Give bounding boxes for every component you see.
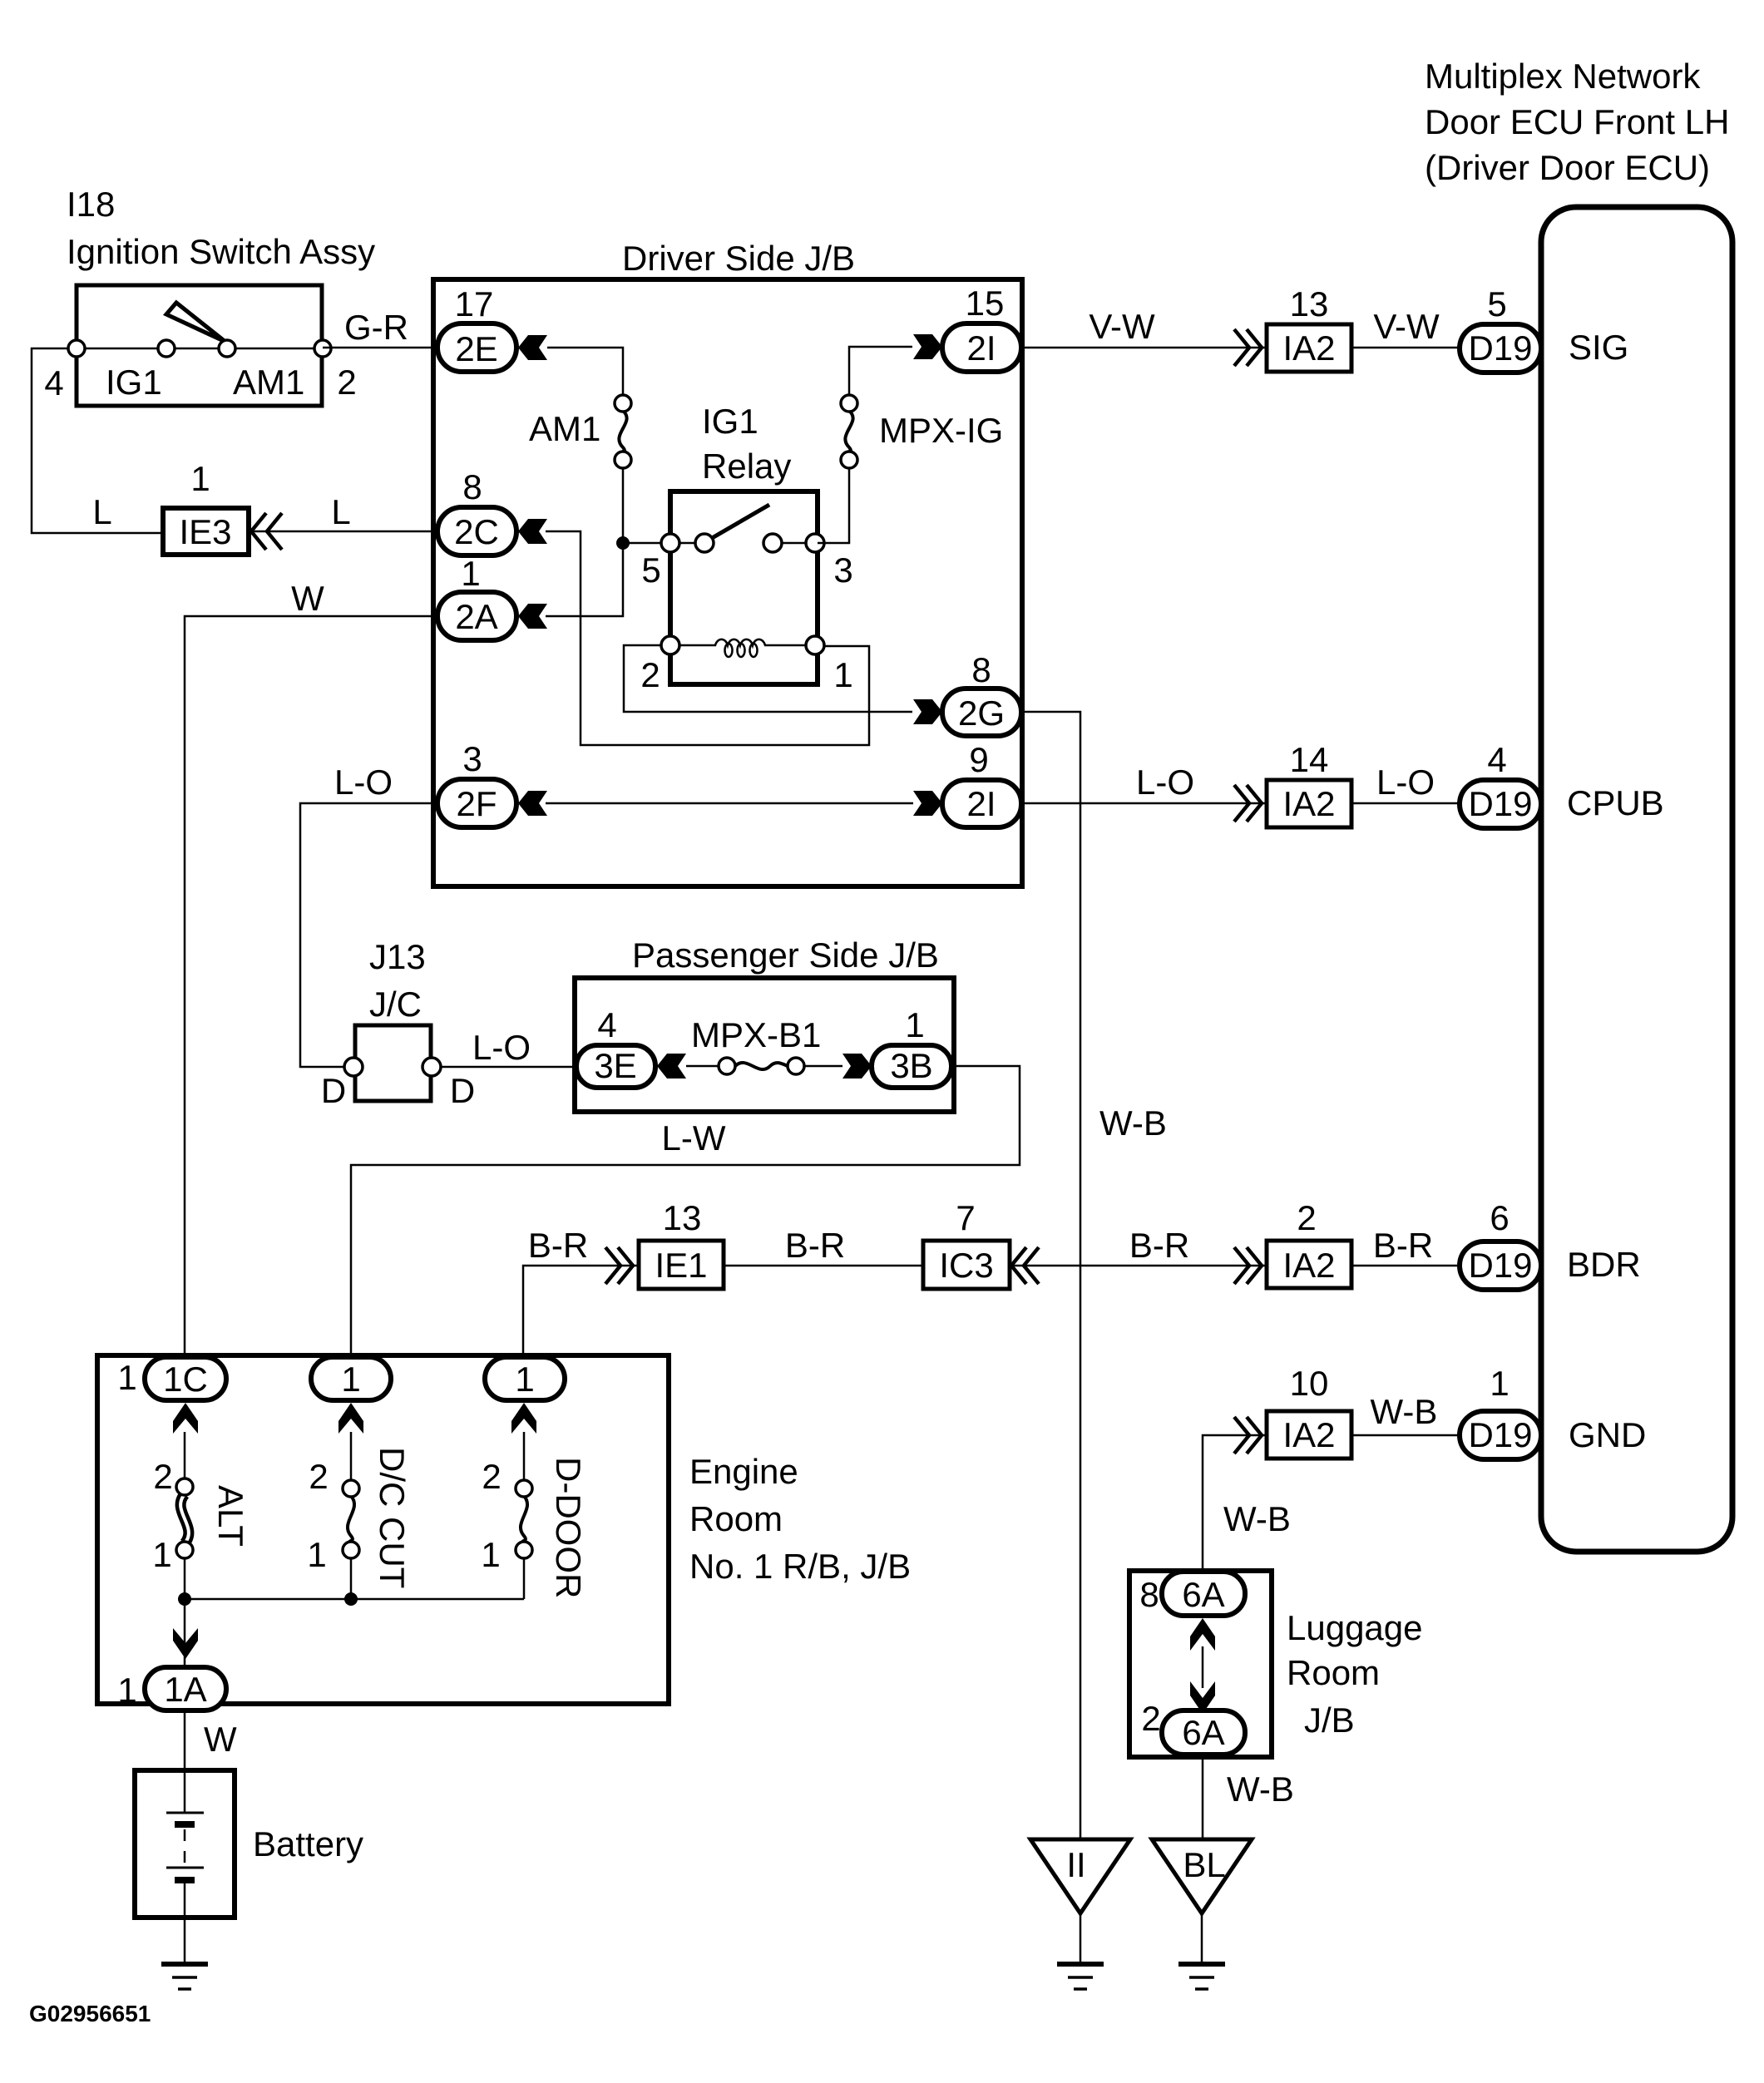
- fuse D-DOOR: [521, 1496, 527, 1542]
- wire: L-W from 3B to engine room D/C CUT connector: [351, 1066, 1020, 1359]
- wire: W from 2A to engine room 1C: [185, 616, 433, 1359]
- wire: MPX-IG fuse top to 2I: [849, 347, 912, 395]
- svg-text:1: 1: [341, 1360, 360, 1399]
- svg-text:MPX-B1: MPX-B1: [691, 1015, 821, 1054]
- arrow into 2C: [518, 519, 547, 544]
- svg-text:2: 2: [640, 655, 660, 694]
- wire: engine room bus: [185, 1598, 524, 1601]
- wire between luggage arrows: [1202, 1646, 1204, 1688]
- arrow into 3E: [657, 1054, 686, 1079]
- connector oval 2F: [437, 779, 516, 827]
- svg-text:D19: D19: [1468, 784, 1532, 823]
- chevron pair before IE1: [605, 1247, 620, 1284]
- svg-text:L: L: [331, 492, 350, 531]
- wire: fuse to arrows inside passenger J/B: [686, 1065, 719, 1068]
- ECU Driver Door ECU body: [1541, 207, 1732, 1552]
- svg-text:B-R: B-R: [1373, 1226, 1433, 1265]
- svg-text:Relay: Relay: [702, 447, 791, 486]
- svg-text:4: 4: [1487, 740, 1506, 779]
- wire: L from IE3 to 2C: [249, 531, 436, 533]
- svg-text:8: 8: [1139, 1575, 1159, 1614]
- arrow into 2I (15): [913, 334, 942, 359]
- svg-text:2: 2: [337, 363, 356, 402]
- junction box: Passenger Side J/B: [575, 978, 954, 1112]
- svg-text:SIG: SIG: [1569, 328, 1628, 367]
- svg-text:B-R: B-R: [785, 1226, 845, 1265]
- svg-text:V-W: V-W: [1373, 307, 1440, 346]
- wire: D/C CUT to bus: [350, 1558, 353, 1599]
- svg-text:3: 3: [833, 550, 852, 590]
- svg-text:3E: 3E: [594, 1046, 636, 1085]
- svg-text:Ignition Switch Assy: Ignition Switch Assy: [67, 232, 375, 271]
- wire: IC3 to IA2(2) B-R: [1010, 1265, 1267, 1267]
- fuse D/C CUT: [348, 1496, 354, 1542]
- junction box: Driver Side J/B: [433, 279, 1022, 886]
- chevron pair before IA2(10): [1234, 1417, 1249, 1454]
- wire: L-O from 2F out to J13: [300, 803, 433, 1067]
- svg-text:W: W: [291, 579, 324, 618]
- ignition switch box: [77, 285, 322, 406]
- svg-text:Engine: Engine: [689, 1452, 798, 1491]
- svg-text:1: 1: [117, 1358, 136, 1397]
- svg-text:B-R: B-R: [1129, 1226, 1189, 1265]
- svg-text:2I: 2I: [966, 784, 996, 823]
- wire: IE1 to IC3 B-R: [724, 1265, 923, 1267]
- connector oval 3B: [872, 1045, 951, 1088]
- svg-text:Luggage: Luggage: [1287, 1608, 1423, 1647]
- wire: ignition switch internal bus: [77, 348, 323, 350]
- relay switch contact wire: [670, 542, 704, 545]
- svg-text:D19: D19: [1468, 328, 1532, 368]
- svg-text:10: 10: [1290, 1364, 1329, 1403]
- svg-text:1C: 1C: [163, 1360, 208, 1399]
- svg-text:D19: D19: [1468, 1415, 1532, 1454]
- wire: IA2(14) to D19(4) L-O: [1351, 802, 1460, 805]
- svg-text:9: 9: [969, 740, 988, 779]
- connector oval D19 (4): [1460, 780, 1541, 828]
- svg-text:IA2: IA2: [1282, 328, 1335, 368]
- wire: 2I(15) to IA2(13) V-W: [1021, 347, 1267, 349]
- ground (BL): [1178, 1964, 1225, 1989]
- connector oval 1A: [145, 1667, 226, 1710]
- svg-text:2: 2: [1297, 1198, 1316, 1237]
- svg-text:1: 1: [307, 1535, 326, 1574]
- svg-text:1: 1: [515, 1360, 534, 1399]
- connector oval 2I pin9: [942, 780, 1021, 827]
- terminal pin 4: [68, 340, 85, 357]
- svg-text:1: 1: [461, 554, 480, 593]
- svg-text:IE1: IE1: [655, 1246, 707, 1285]
- fuse AM1 (inside J/B): [619, 411, 626, 452]
- arrow down (luggage): [1190, 1681, 1215, 1714]
- wire: J13 to 3E L-O: [441, 1066, 576, 1069]
- switch lever (open): [166, 303, 225, 342]
- connector oval 3E: [576, 1045, 655, 1088]
- wire: 6A(2) down to BL triangle: [1202, 1755, 1204, 1839]
- arrow into 2I (9): [913, 791, 942, 816]
- fuse MPX-B1 (horizontal): [735, 1063, 788, 1069]
- svg-text:17: 17: [455, 284, 494, 323]
- terminal AM1 (lever pivot): [219, 340, 235, 357]
- arrow into 2E: [518, 335, 547, 360]
- wire: IA2(13) to D19(5) V-W: [1351, 347, 1460, 349]
- wire: ALT to bus: [184, 1558, 186, 1599]
- svg-text:GND: GND: [1569, 1415, 1646, 1454]
- svg-text:(Driver Door ECU): (Driver Door ECU): [1425, 148, 1710, 187]
- svg-text:ALT: ALT: [211, 1485, 250, 1547]
- connector IA2 box (14): [1267, 780, 1351, 827]
- connector oval 2I pin15: [942, 323, 1021, 372]
- svg-text:2: 2: [153, 1457, 172, 1496]
- connector oval 1 (D-DOOR): [485, 1357, 565, 1400]
- svg-text:3: 3: [462, 739, 482, 778]
- svg-text:1: 1: [1490, 1364, 1509, 1403]
- svg-text:2: 2: [482, 1457, 501, 1496]
- relay pin 5 terminal: [661, 534, 679, 552]
- svg-text:14: 14: [1290, 740, 1329, 779]
- svg-text:G02956651: G02956651: [29, 2001, 151, 2026]
- svg-text:I18: I18: [67, 185, 115, 224]
- arrow into 2F: [518, 791, 547, 816]
- battery plate long 2: [166, 1867, 204, 1869]
- relay coil pin 2: [661, 636, 679, 654]
- svg-text:V-W: V-W: [1089, 307, 1155, 346]
- chevron pair before IA2(2): [1234, 1247, 1249, 1284]
- svg-text:IA2: IA2: [1282, 1415, 1335, 1454]
- wire: 2C to relay coil pin1: [546, 531, 869, 745]
- connector IC3 box: [923, 1241, 1010, 1289]
- svg-text:L: L: [92, 492, 111, 531]
- relay pin 3 terminal: [806, 534, 824, 552]
- svg-text:2C: 2C: [454, 512, 499, 551]
- svg-text:2A: 2A: [455, 597, 497, 636]
- wire: G-R from pin2 to 2E: [323, 347, 436, 349]
- svg-text:Door ECU Front LH: Door ECU Front LH: [1425, 102, 1729, 141]
- wire: battery to ground: [184, 1918, 186, 1964]
- wire: 2I(9) to IA2(14) L-O: [1021, 802, 1267, 805]
- svg-text:D: D: [321, 1071, 346, 1110]
- svg-text:4: 4: [597, 1005, 616, 1044]
- arrow up (luggage): [1190, 1618, 1215, 1651]
- svg-text:D: D: [450, 1071, 475, 1110]
- svg-text:BL: BL: [1183, 1845, 1225, 1884]
- fuse MPX-IG (inside J/B): [845, 411, 852, 452]
- svg-text:4: 4: [44, 363, 63, 402]
- svg-text:IA2: IA2: [1282, 784, 1335, 823]
- wire: middle connector to D/C CUT fuse: [350, 1432, 353, 1480]
- svg-text:J/C: J/C: [369, 985, 422, 1024]
- svg-text:3B: 3B: [890, 1046, 932, 1085]
- svg-text:W-B: W-B: [1099, 1103, 1167, 1143]
- connector IE1 box: [639, 1241, 724, 1289]
- relay IG1 box: [670, 491, 818, 684]
- wire: 1C to ALT fuse: [184, 1432, 186, 1480]
- battery plate short -: [175, 1821, 195, 1828]
- svg-text:1: 1: [905, 1005, 924, 1044]
- connector oval 1 (D/C CUT): [311, 1357, 391, 1400]
- svg-text:D19: D19: [1468, 1246, 1532, 1285]
- svg-text:B-R: B-R: [528, 1226, 588, 1265]
- wire: 2E to AM1 fuse: [547, 348, 623, 397]
- junction dot ALT/bus: [178, 1592, 191, 1606]
- junction box: Engine Room No.1 R/B J/B: [97, 1355, 669, 1704]
- connector oval 2C: [437, 507, 516, 555]
- junction box: Luggage Room J/B: [1129, 1571, 1272, 1757]
- battery plate short 2: [175, 1877, 195, 1883]
- junction dot D/C CUT/bus: [344, 1592, 358, 1606]
- ground triangle BL: [1152, 1839, 1252, 1913]
- svg-text:5: 5: [1487, 284, 1506, 323]
- svg-text:1: 1: [190, 459, 210, 498]
- connector oval 2A: [437, 592, 516, 640]
- wire: junction down to 2A: [546, 543, 623, 616]
- svg-text:Passenger Side J/B: Passenger Side J/B: [632, 935, 939, 975]
- svg-text:8: 8: [971, 650, 991, 689]
- chevron pair before IA2(13): [1234, 329, 1249, 366]
- svg-text:7: 7: [956, 1198, 975, 1237]
- junction connector J13 J/C box: [355, 1025, 431, 1101]
- wire: MPX-IG fuse bottom to relay pin3: [818, 468, 849, 543]
- arrow down into 1A: [173, 1628, 198, 1659]
- relay inner contact right: [763, 534, 782, 552]
- svg-text:Room: Room: [1287, 1653, 1380, 1692]
- svg-text:15: 15: [966, 284, 1005, 323]
- fusible link ALT: [180, 1494, 189, 1543]
- battery box: [135, 1770, 235, 1918]
- chevron pair before IA2(14): [1234, 785, 1249, 822]
- chevron pair after IC3 (pointing left): [1011, 1247, 1026, 1284]
- ground (battery): [161, 1964, 208, 1989]
- connector IA2 box (2): [1267, 1241, 1351, 1288]
- svg-text:IG1: IG1: [106, 363, 162, 402]
- svg-text:W-B: W-B: [1227, 1770, 1294, 1809]
- wire: 1A to battery W: [184, 1710, 186, 1772]
- wire: D-DOOR to bus: [523, 1558, 526, 1599]
- svg-text:6A: 6A: [1182, 1575, 1224, 1614]
- svg-text:J13: J13: [369, 937, 426, 976]
- svg-text:Battery: Battery: [253, 1824, 363, 1863]
- svg-text:L-O: L-O: [1136, 763, 1194, 802]
- battery plate long +: [166, 1812, 204, 1814]
- wire: BL triangle to ground: [1201, 1913, 1203, 1964]
- svg-text:AM1: AM1: [233, 363, 304, 402]
- svg-text:13: 13: [663, 1198, 702, 1237]
- wire: bus down to 1A: [184, 1599, 186, 1668]
- relay switch lever: [708, 505, 769, 540]
- svg-text:2: 2: [309, 1457, 328, 1496]
- relay coil pin 1: [806, 636, 824, 654]
- svg-text:1: 1: [152, 1535, 171, 1574]
- ground triangle II: [1030, 1839, 1130, 1913]
- svg-text:II: II: [1066, 1845, 1085, 1884]
- connector oval D19 (5): [1460, 324, 1541, 373]
- ground (II): [1057, 1964, 1104, 1989]
- wire: pin4 to IE3 (L) left loop: [32, 348, 163, 533]
- relay inner contact left: [695, 534, 714, 552]
- svg-text:6: 6: [1490, 1198, 1509, 1237]
- battery dashed middle: [184, 1829, 186, 1864]
- svg-text:MPX-IG: MPX-IG: [879, 411, 1003, 450]
- connector oval 1C: [145, 1357, 226, 1400]
- svg-text:D-DOOR: D-DOOR: [549, 1457, 588, 1598]
- wire: II triangle to ground: [1080, 1913, 1082, 1964]
- svg-text:2F: 2F: [456, 784, 497, 823]
- svg-text:2G: 2G: [958, 694, 1005, 733]
- connector IA2 box (10): [1267, 1411, 1351, 1459]
- wire: right connector to D-DOOR fuse: [523, 1432, 526, 1480]
- terminal pin 2: [314, 340, 331, 357]
- svg-text:BDR: BDR: [1567, 1245, 1641, 1284]
- svg-text:L-W: L-W: [662, 1118, 726, 1157]
- svg-text:W-B: W-B: [1371, 1392, 1438, 1431]
- J13 terminal D left: [344, 1058, 363, 1076]
- connector IE3 box: [163, 508, 249, 555]
- arrow up into 1C: [173, 1403, 198, 1434]
- svg-text:IC3: IC3: [939, 1246, 993, 1285]
- svg-text:G-R: G-R: [344, 308, 408, 347]
- svg-text:IG1: IG1: [702, 402, 758, 441]
- svg-text:IA2: IA2: [1282, 1246, 1335, 1285]
- wire: B-R from engine room D-DOOR connector to IE1: [523, 1266, 639, 1359]
- connector oval 6A bottom: [1162, 1710, 1245, 1755]
- junction dot: [616, 536, 630, 550]
- svg-text:2: 2: [1141, 1699, 1160, 1738]
- svg-text:6A: 6A: [1182, 1713, 1224, 1752]
- svg-text:Multiplex Network: Multiplex Network: [1425, 57, 1701, 96]
- svg-text:1A: 1A: [164, 1670, 206, 1709]
- connector oval 2G: [942, 689, 1021, 736]
- svg-text:5: 5: [641, 550, 660, 590]
- battery internal wire top: [184, 1772, 186, 1813]
- connector oval D19 (1): [1460, 1411, 1541, 1459]
- connector oval 2E: [437, 323, 516, 372]
- wire: AM1 fuse to junction: [622, 468, 625, 543]
- wire: relay coil pin2 to 2G: [624, 645, 912, 712]
- svg-text:No. 1 R/B, J/B: No. 1 R/B, J/B: [689, 1547, 911, 1586]
- connector IA2 box (13): [1267, 324, 1351, 372]
- svg-text:1: 1: [481, 1535, 500, 1574]
- svg-text:AM1: AM1: [529, 409, 600, 448]
- svg-text:J/B: J/B: [1304, 1700, 1355, 1740]
- arrow into 3B: [842, 1054, 872, 1079]
- svg-text:13: 13: [1290, 284, 1329, 323]
- arrow into 2A: [518, 604, 547, 629]
- svg-text:2E: 2E: [455, 329, 497, 368]
- J13 terminal D right: [422, 1058, 441, 1076]
- svg-text:CPUB: CPUB: [1567, 783, 1664, 822]
- svg-text:IE3: IE3: [179, 512, 231, 551]
- svg-text:Driver Side J/B: Driver Side J/B: [622, 239, 855, 278]
- svg-text:2I: 2I: [966, 328, 996, 368]
- svg-text:L-O: L-O: [334, 763, 393, 802]
- wire: junction to relay pin5: [623, 542, 670, 545]
- svg-text:L-O: L-O: [472, 1028, 531, 1067]
- connector oval 6A top: [1162, 1572, 1245, 1616]
- wire: IA2(2) to D19(6) B-R: [1351, 1265, 1460, 1267]
- svg-text:1: 1: [833, 655, 852, 694]
- svg-text:W-B: W-B: [1223, 1499, 1291, 1538]
- svg-text:D/C CUT: D/C CUT: [373, 1447, 412, 1588]
- battery internal wire bottom: [184, 1880, 186, 1918]
- wire: IA2(10) to D19(1) W-B: [1351, 1434, 1460, 1437]
- svg-text:8: 8: [462, 467, 482, 506]
- svg-text:Room: Room: [689, 1499, 783, 1538]
- arrow up into right 1: [511, 1403, 536, 1434]
- svg-text:1: 1: [117, 1671, 136, 1710]
- arrow up into middle 1: [338, 1403, 363, 1434]
- svg-text:W: W: [204, 1720, 237, 1759]
- wire: luggage 6A(8) up to IA2(10): [1203, 1435, 1267, 1572]
- wire: 2F to 2I(9): [546, 802, 913, 805]
- arrow into 2G: [913, 699, 942, 724]
- terminal IG1: [158, 340, 175, 357]
- relay coil: [679, 639, 806, 645]
- svg-text:L-O: L-O: [1376, 763, 1435, 802]
- chevron pair at IE3 (pointing left): [251, 513, 266, 550]
- connector oval D19 (6): [1460, 1241, 1541, 1290]
- wire: W-B from 2G down to II triangle: [1021, 712, 1080, 1839]
